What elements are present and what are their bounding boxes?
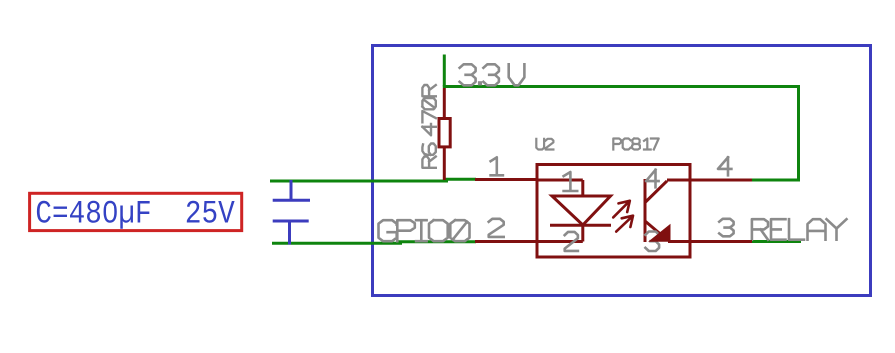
svg-text:C=480µF 25V: C=480µF 25V <box>35 195 235 232</box>
